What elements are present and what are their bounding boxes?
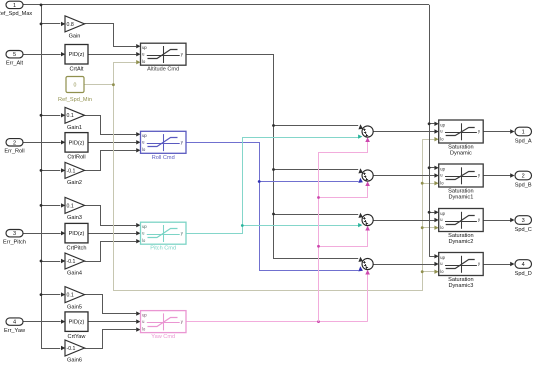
svg-text:2: 2 bbox=[522, 174, 525, 180]
svg-text:4: 4 bbox=[13, 320, 16, 326]
svg-text:-0.1: -0.1 bbox=[67, 259, 76, 265]
svg-text:Err_Yaw: Err_Yaw bbox=[4, 328, 26, 334]
svg-text:Yaw Cmd: Yaw Cmd bbox=[151, 334, 175, 340]
svg-text:Gain3: Gain3 bbox=[67, 215, 82, 221]
svg-text:3: 3 bbox=[13, 231, 16, 237]
svg-text:up: up bbox=[142, 224, 147, 229]
svg-text:0: 0 bbox=[74, 83, 77, 89]
svg-text:Dynamic3: Dynamic3 bbox=[448, 283, 473, 289]
svg-text:u: u bbox=[142, 230, 144, 235]
svg-text:u: u bbox=[142, 51, 144, 56]
svg-text:CrtAlt: CrtAlt bbox=[70, 67, 84, 73]
svg-text:Gain6: Gain6 bbox=[67, 358, 82, 364]
svg-text:PID(z): PID(z) bbox=[69, 320, 85, 326]
svg-text:u: u bbox=[440, 217, 442, 222]
svg-text:Gain: Gain bbox=[69, 34, 81, 40]
svg-text:PID(z): PID(z) bbox=[69, 140, 85, 146]
svg-text:PID(z): PID(z) bbox=[69, 231, 85, 237]
svg-text:u: u bbox=[440, 173, 442, 178]
svg-text:CrtYaw: CrtYaw bbox=[68, 334, 87, 340]
svg-text:0.1: 0.1 bbox=[67, 203, 74, 209]
svg-text:up: up bbox=[440, 122, 445, 127]
svg-text:Gain5: Gain5 bbox=[67, 304, 82, 310]
svg-text:Altitude Cmd: Altitude Cmd bbox=[147, 67, 179, 73]
svg-text:u: u bbox=[440, 261, 442, 266]
svg-text:0.8: 0.8 bbox=[67, 22, 74, 28]
svg-text:Dynamic: Dynamic bbox=[450, 151, 472, 157]
svg-text:4: 4 bbox=[522, 262, 525, 268]
svg-text:Pitch Cmd: Pitch Cmd bbox=[150, 246, 176, 252]
svg-text:5: 5 bbox=[13, 52, 16, 58]
svg-text:Dynamic2: Dynamic2 bbox=[448, 239, 473, 245]
svg-text:Err_Alt: Err_Alt bbox=[6, 60, 24, 66]
svg-text:Ref_Spd_Min: Ref_Spd_Min bbox=[58, 97, 92, 103]
svg-text:up: up bbox=[142, 45, 147, 50]
svg-text:Roll Cmd: Roll Cmd bbox=[152, 155, 175, 161]
svg-text:2: 2 bbox=[13, 140, 16, 146]
svg-text:Err_Roll: Err_Roll bbox=[4, 149, 24, 155]
svg-text:u: u bbox=[142, 319, 144, 324]
svg-text:Ref_Spd_Max: Ref_Spd_Max bbox=[0, 11, 32, 17]
svg-text:0.1: 0.1 bbox=[67, 293, 74, 299]
svg-text:Spd_A: Spd_A bbox=[515, 139, 532, 145]
svg-text:Spd_C: Spd_C bbox=[515, 227, 532, 233]
svg-text:u: u bbox=[142, 140, 144, 145]
svg-text:Err_Pitch: Err_Pitch bbox=[3, 239, 26, 245]
svg-text:Gain1: Gain1 bbox=[67, 125, 82, 131]
svg-text:u: u bbox=[440, 129, 442, 134]
svg-text:CtrlRoll: CtrlRoll bbox=[67, 155, 85, 161]
svg-text:1: 1 bbox=[13, 3, 16, 9]
svg-text:Spd_B: Spd_B bbox=[515, 183, 532, 189]
svg-text:Dynamic1: Dynamic1 bbox=[448, 195, 473, 201]
svg-text:up: up bbox=[142, 312, 147, 317]
svg-text:Gain2: Gain2 bbox=[67, 180, 82, 186]
svg-text:up: up bbox=[440, 255, 445, 260]
svg-text:3: 3 bbox=[522, 218, 525, 224]
svg-text:1: 1 bbox=[522, 130, 525, 136]
svg-text:Spd_D: Spd_D bbox=[515, 271, 532, 277]
svg-text:-0.1: -0.1 bbox=[67, 168, 76, 174]
svg-text:PID(z): PID(z) bbox=[69, 52, 85, 58]
svg-text:-0.1: -0.1 bbox=[67, 346, 76, 352]
svg-text:Gain4: Gain4 bbox=[67, 271, 82, 277]
svg-text:up: up bbox=[440, 166, 445, 171]
svg-text:up: up bbox=[440, 211, 445, 216]
svg-text:CrtPitch: CrtPitch bbox=[67, 246, 87, 252]
svg-text:up: up bbox=[142, 133, 147, 138]
svg-text:0.1: 0.1 bbox=[67, 113, 74, 119]
